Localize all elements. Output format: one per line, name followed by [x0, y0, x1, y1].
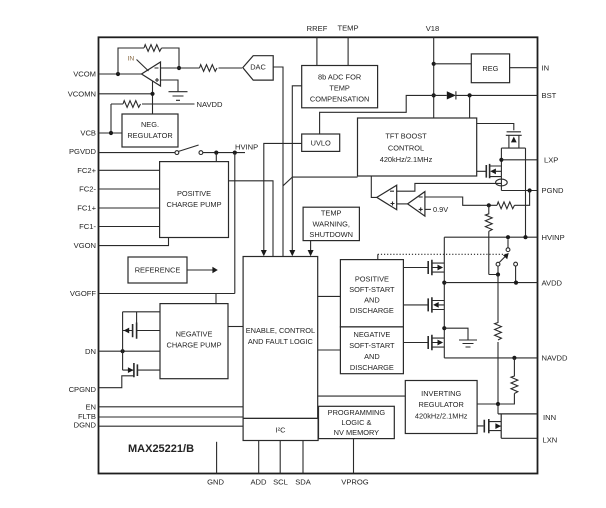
block I2C — [243, 418, 318, 440]
svg-text:NEG.: NEG. — [141, 120, 159, 129]
node V18 junction 1 — [432, 62, 436, 66]
wire to charge pump top — [215, 153, 217, 162]
svg-text:DISCHARGE: DISCHARGE — [350, 363, 394, 372]
svg-text:BST: BST — [542, 91, 557, 100]
block TEMP WARNING SHUTDOWN — [303, 207, 359, 240]
wire IN supply to op-amp — [137, 60, 149, 72]
wire logic to soft-start 1 — [318, 295, 341, 297]
resistor to DAC — [179, 65, 242, 72]
wire V18 to REG — [434, 63, 472, 65]
svg-text:V18: V18 — [426, 24, 440, 33]
resistor R2 lower section — [495, 275, 502, 405]
wire UVLO output — [264, 143, 302, 250]
svg-text:TEMP: TEMP — [321, 208, 342, 217]
svg-text:CONTROL: CONTROL — [388, 143, 424, 152]
ground soft-start — [459, 340, 477, 347]
transistor Q2 lower DN FET — [99, 351, 161, 388]
svg-text:COMPENSATION: COMPENSATION — [310, 94, 369, 103]
svg-text:420kHz/2.1MHz: 420kHz/2.1MHz — [380, 155, 433, 164]
control line dotted — [378, 253, 506, 255]
op-amp VCOM buffer — [142, 62, 161, 86]
node feedback junction — [177, 66, 181, 70]
svg-text:SHUTDOWN: SHUTDOWN — [309, 230, 353, 239]
svg-text:NAVDD: NAVDD — [542, 354, 569, 363]
wire source to PGND — [501, 190, 537, 192]
wire AVDD — [444, 282, 537, 284]
block NEGATIVE SOFT-START AND DISCHARGE — [340, 327, 403, 374]
svg-text:TFT BOOST: TFT BOOST — [385, 131, 427, 140]
wire logic to inverting regulator — [318, 395, 406, 397]
svg-text:NV MEMORY: NV MEMORY — [334, 428, 380, 437]
svg-text:IN: IN — [128, 56, 135, 63]
pin ADD — [258, 441, 260, 474]
svg-text:ENABLE, CONTROL: ENABLE, CONTROL — [246, 326, 315, 335]
svg-text:8b ADC FOR: 8b ADC FOR — [318, 72, 361, 81]
svg-text:ADD: ADD — [250, 477, 267, 486]
svg-text:TEMP: TEMP — [337, 24, 358, 33]
transistor Q8 inverting FET — [477, 422, 501, 431]
svg-text:PROGRAMMING: PROGRAMMING — [328, 408, 386, 417]
node LXP junction — [499, 158, 503, 162]
wire to ground — [444, 328, 468, 340]
resistor to NAVDD — [111, 101, 195, 108]
node switch junction — [496, 272, 500, 276]
svg-text:TEMP: TEMP — [329, 83, 350, 92]
current sense element — [500, 177, 502, 191]
node AVDD rail junction — [442, 281, 446, 285]
wire PGVDD — [99, 152, 175, 154]
wire HVINP node — [203, 152, 245, 154]
svg-text:RREF: RREF — [307, 24, 328, 33]
svg-text:VCB: VCB — [80, 129, 96, 138]
svg-text:NAVDD: NAVDD — [197, 100, 224, 109]
svg-text:REGULATOR: REGULATOR — [127, 131, 172, 140]
svg-text:IN: IN — [542, 63, 550, 72]
svg-text:AND: AND — [364, 296, 380, 305]
wire VCOM — [99, 73, 142, 75]
transistor Q5 soft-start FET — [403, 263, 444, 272]
pin SCL — [279, 441, 281, 474]
svg-text:LXP: LXP — [544, 155, 558, 164]
node V18 junction 2 — [432, 93, 436, 97]
svg-text:DN: DN — [85, 347, 96, 356]
wire U4 input to divider — [425, 197, 489, 205]
wire BST to boost control — [469, 95, 471, 118]
transistor Q7 soft-start FET — [403, 338, 444, 347]
svg-text:WARNING,: WARNING, — [312, 219, 350, 228]
block 8b ADC FOR TEMP COMPENSATION — [302, 66, 378, 108]
svg-text:DGND: DGND — [74, 420, 97, 429]
svg-text:REG: REG — [482, 64, 498, 73]
svg-text:VCOM: VCOM — [73, 70, 96, 79]
chip outline MAX25221/B — [99, 37, 538, 473]
node VCOMN junction — [150, 92, 154, 96]
wire ADC output — [292, 86, 357, 250]
block REG — [471, 54, 509, 83]
svg-text:SCL: SCL — [273, 477, 288, 486]
comparator U3 — [377, 185, 397, 210]
svg-text:VCOMN: VCOMN — [68, 89, 96, 98]
svg-text:SDA: SDA — [295, 477, 312, 486]
block INN LXN cell — [498, 414, 537, 438]
wire op-amp + to ground — [161, 80, 179, 92]
node divider junction — [487, 203, 491, 207]
wire temp warning to logic arrow — [310, 241, 312, 251]
switch AVDD selector — [507, 239, 509, 247]
svg-text:INN: INN — [543, 413, 556, 422]
resistor divider bottom R3 — [477, 358, 518, 404]
wire rectifier right leg down — [525, 148, 527, 237]
comparator U4 — [408, 192, 425, 217]
svg-text:PGVDD: PGVDD — [69, 147, 97, 156]
wire comparator U4 output — [397, 203, 408, 205]
svg-text:MAX25221/B: MAX25221/B — [128, 443, 194, 455]
transistor Q4 boost switch NMOS — [477, 166, 502, 177]
wire HVINP vertical rail — [444, 237, 537, 358]
block NEG. REGULATOR — [122, 114, 178, 147]
svg-text:FC2-: FC2- — [79, 185, 96, 194]
wire comparator feedback input — [397, 183, 502, 191]
svg-text:NEGATIVE: NEGATIVE — [353, 330, 390, 339]
svg-text:PGND: PGND — [542, 186, 564, 195]
node HVINP pin junction 2 — [523, 235, 527, 239]
block PROGRAMMING LOGIC & NV MEMORY — [319, 406, 395, 438]
svg-text:FC1-: FC1- — [79, 222, 96, 231]
ground op-amp — [169, 92, 188, 101]
svg-text:SOFT-START: SOFT-START — [349, 341, 395, 350]
wire VCB riser — [110, 104, 112, 133]
diode D1 — [434, 91, 538, 99]
block REFERENCE — [128, 257, 187, 283]
svg-text:NEGATIVE: NEGATIVE — [176, 329, 213, 338]
svg-text:HVINP: HVINP — [542, 233, 565, 242]
transistor Q6 soft-start FET — [403, 301, 444, 310]
svg-text:FC1+: FC1+ — [77, 204, 96, 213]
svg-text:AND: AND — [364, 352, 380, 361]
node HVINP junction 1 — [214, 151, 218, 155]
node VCOM junction — [116, 72, 120, 76]
svg-text:0.9V: 0.9V — [433, 205, 448, 214]
svg-text:REFERENCE: REFERENCE — [135, 266, 181, 275]
svg-text:DAC: DAC — [250, 63, 266, 72]
block TFT BOOST CONTROL — [358, 118, 477, 176]
block UVLO — [302, 134, 340, 151]
switch PGVDD — [175, 151, 179, 155]
resistor feedback — [144, 45, 161, 52]
node HVINP junction 2 — [233, 151, 237, 155]
wire DAC output — [274, 67, 293, 257]
svg-text:VPROG: VPROG — [341, 477, 369, 486]
wire comparator output to boost control — [371, 176, 377, 197]
node NAVDD divider junction — [512, 356, 516, 360]
wire DN — [99, 350, 161, 352]
wire junction to INN box — [497, 404, 499, 414]
svg-text:CHARGE PUMP: CHARGE PUMP — [166, 200, 221, 209]
wire switch drain to LXP — [500, 160, 502, 166]
node VCB junction — [109, 131, 113, 135]
svg-text:VGON: VGON — [74, 241, 96, 250]
node PGND junction — [528, 188, 532, 192]
resistor divider top — [515, 191, 530, 206]
DAC U2 — [243, 56, 273, 80]
wire 0.9V reference stub — [425, 208, 431, 210]
wire HVINP rail — [444, 236, 537, 238]
svg-text:LOGIC &: LOGIC & — [341, 418, 371, 427]
node BST junction — [468, 93, 472, 97]
pin GND — [216, 442, 218, 474]
wire rectifier to LXP — [500, 148, 502, 160]
wire V18 to UVLO — [320, 95, 434, 134]
pin VPROG — [353, 439, 355, 474]
block INVERTING REGULATOR — [405, 381, 477, 434]
node inverting reg junction — [496, 402, 500, 406]
svg-text:GND: GND — [207, 477, 224, 486]
svg-text:DISCHARGE: DISCHARGE — [350, 306, 394, 315]
wire VGOFF — [99, 293, 235, 295]
wire charge pump output — [229, 181, 274, 257]
svg-text:POSITIVE: POSITIVE — [355, 275, 389, 284]
svg-text:EN: EN — [85, 402, 96, 411]
svg-text:POSITIVE: POSITIVE — [177, 189, 211, 198]
wire reference output arrow — [187, 269, 213, 271]
transistor Q3 boost rectifier PMOS — [477, 124, 526, 149]
node discharge junction — [442, 326, 446, 330]
svg-text:INVERTING: INVERTING — [421, 389, 461, 398]
svg-text:CHARGE PUMP: CHARGE PUMP — [166, 340, 221, 349]
block ENABLE CONTROL AND FAULT LOGIC — [243, 257, 318, 419]
svg-text:I²C: I²C — [276, 425, 287, 434]
svg-text:420kHz/2.1MHz: 420kHz/2.1MHz — [415, 411, 468, 420]
node DN junction — [121, 349, 125, 353]
pin SDA — [302, 441, 304, 474]
svg-text:UVLO: UVLO — [311, 139, 331, 148]
svg-text:REGULATOR: REGULATOR — [419, 400, 464, 409]
wire VGOFF to neg charge pump — [215, 294, 217, 304]
wire logic to soft-start 2 — [318, 349, 341, 351]
svg-text:FC2+: FC2+ — [77, 166, 96, 175]
svg-text:AND FAULT LOGIC: AND FAULT LOGIC — [248, 337, 314, 346]
node HVINP pin junction 1 — [506, 235, 510, 239]
svg-text:LXN: LXN — [543, 436, 558, 445]
resistor divider middle R2 — [485, 205, 498, 274]
node AVDD divider junction — [514, 281, 518, 285]
svg-text:AVDD: AVDD — [542, 278, 563, 287]
svg-text:HVINP: HVINP — [235, 142, 258, 151]
transistor Q1 upper DN FET — [123, 312, 160, 351]
block NEGATIVE CHARGE PUMP — [160, 304, 228, 379]
svg-text:SOFT-START: SOFT-START — [349, 285, 395, 294]
wire neg charge pump output — [228, 326, 243, 328]
block POSITIVE SOFT-START AND DISCHARGE — [340, 260, 403, 327]
svg-text:CPGND: CPGND — [69, 385, 97, 394]
wire HVINP drop to VGOFF rail — [234, 153, 236, 294]
wire feedback loop — [118, 48, 179, 74]
svg-text:VGOFF: VGOFF — [70, 289, 97, 298]
block POSITIVE CHARGE PUMP — [160, 162, 229, 238]
